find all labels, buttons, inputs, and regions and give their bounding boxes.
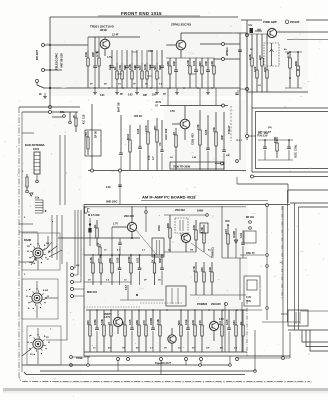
wire rowA right bus (164, 251, 196, 253)
svg-text:100K: 100K (273, 137, 277, 143)
wire S1 feeds (38, 233, 48, 270)
svg-text:BAT 88: BAT 88 (117, 102, 121, 112)
wire rowB lower rail (120, 299, 164, 301)
wire S1 feed diagonals (46, 242, 62, 257)
wire fe link bar5 (190, 73, 196, 75)
wire right link 190 (288, 189, 328, 191)
ground GND top (39, 93, 47, 99)
node plus mark (280, 260, 282, 264)
component S1 box (22, 233, 60, 270)
wire diag feedback (136, 230, 156, 254)
wire M2 h184 (237, 183, 288, 185)
net label 2SC403 B (175, 208, 185, 212)
wire TR block bottom bus (247, 91, 308, 93)
net label TUN (257, 132, 272, 138)
net label MF 201 (246, 216, 255, 219)
net label 9018 (100, 28, 107, 32)
net label COIL413 (191, 133, 195, 145)
wire right box top (290, 202, 328, 204)
node J1 (49, 87, 51, 89)
wire TR block left border (246, 20, 248, 96)
inductor L301 shield (264, 43, 279, 66)
wire diag rowA right (191, 243, 212, 258)
wire fe link bar4 (147, 75, 152, 77)
resistor R104 (153, 118, 158, 170)
capacitor C225 47P (204, 58, 210, 88)
resistor R4213 150 (198, 310, 203, 352)
node cl2 (297, 51, 299, 53)
wire ant3 lead (37, 83, 44, 89)
terminal m2 (249, 227, 252, 230)
wire rowB mid rail (84, 281, 131, 283)
wire front-end board top border (50, 16, 238, 18)
wire right mid rail 311 (300, 310, 328, 312)
wire base drop R (111, 227, 113, 255)
terminal ant bar (36, 180, 39, 183)
capacitor C417 50P (158, 254, 164, 285)
terminal m1 (249, 221, 252, 224)
wire front-end top rail (88, 36, 140, 38)
node tn1 (264, 139, 266, 141)
net label S2 marks (26, 290, 48, 310)
net label pF under bus 2 (143, 95, 148, 97)
terminal rc1 (251, 175, 254, 178)
wire right box bottom (288, 329, 328, 331)
net label tr block extra (250, 49, 288, 87)
wire M2 dash vline (227, 106, 231, 141)
capacitor CT1 (263, 140, 267, 160)
wire rb step2 (306, 330, 328, 347)
wire conn drops (52, 215, 62, 264)
resistor R414 100K (127, 254, 132, 285)
component MF box (244, 231, 256, 243)
net label OSC 70 (246, 252, 255, 255)
wire M2 v237c (236, 177, 238, 184)
terminal m4 (266, 254, 269, 257)
wire ant1 lead (44, 44, 88, 46)
wire term drop 161 (160, 361, 162, 375)
net label FC vertical (82, 114, 86, 124)
wire M2 v288 (287, 184, 289, 203)
terminal P6 (71, 295, 74, 298)
wire M1 drop x120 (119, 172, 121, 205)
terminal FE t247b (246, 88, 249, 91)
net label Tape OUT (155, 362, 171, 365)
wire title underline (98, 15, 200, 17)
resistor R426 33K (135, 310, 140, 352)
component balance cluster (52, 111, 77, 132)
wire left inner frame (21, 112, 23, 372)
capacitor C102 (136, 125, 142, 170)
svg-text:MC2: MC2 (126, 134, 130, 140)
node fe bus dots (94, 87, 213, 89)
svg-text:TUN 3.5V: TUN 3.5V (257, 135, 268, 138)
svg-text:455 KC: 455 KC (134, 115, 143, 118)
transformer T401 (152, 238, 164, 257)
component IFT core (200, 223, 208, 233)
terminal t146 (145, 211, 148, 214)
svg-text:Tape DX-OUT: Tape DX-OUT (155, 362, 171, 365)
net label FRONT END 1015 title (121, 11, 162, 16)
terminal P2 (71, 267, 74, 270)
wire rowB right rail (190, 294, 246, 296)
resistor R4210 560 (177, 310, 182, 352)
net label POWER 2SC945 (197, 302, 228, 306)
svg-text:F.C 110: F.C 110 (82, 114, 86, 124)
net label M 2.5GM (88, 213, 99, 217)
net label TONE CONT (263, 20, 300, 24)
wire right v pair A (283, 190, 288, 322)
terminal m6 (266, 307, 269, 310)
capacitor C240b (235, 91, 240, 95)
resistor R424 1K (121, 310, 126, 352)
capacitor C4211 0.02 (184, 310, 190, 352)
resistor R303 10K (263, 34, 268, 92)
wire S3 feeds (22, 328, 38, 364)
wire drop 255 (254, 330, 256, 371)
switch S3 rotary (27, 334, 49, 355)
capacitor C103 (158, 120, 164, 170)
resistor R203m (212, 112, 217, 170)
transistor TR403 (113, 310, 122, 334)
wire bottom bus 374 (24, 372, 245, 375)
terminal bt3 (229, 364, 232, 367)
capacitor C201 22P (91, 37, 97, 88)
resistor R202m (196, 110, 201, 170)
component left connector bracket (85, 207, 90, 213)
component S3 box (27, 326, 61, 365)
resistor R222 5.6K (186, 58, 191, 88)
wire FE right vline 240 (239, 33, 241, 160)
svg-text:VC: VC (158, 142, 162, 146)
capacitor C403 (118, 238, 122, 255)
wire IF right border dashdot (281, 206, 283, 300)
wire TR401 base (112, 226, 127, 228)
capacitor C104 (106, 185, 122, 189)
terminal PT1 (70, 356, 73, 359)
svg-text:•2179: •2179 (155, 102, 162, 104)
svg-text:AM IF·AMP PC BOARD 4018: AM IF·AMP PC BOARD 4018 (142, 195, 196, 200)
svg-text:750: 750 (84, 132, 88, 137)
component M2 long box (170, 162, 224, 169)
resistor R210 8.2K (143, 50, 148, 88)
svg-text:OSC COIL: OSC COIL (294, 144, 298, 158)
wire left stubs (19, 224, 38, 262)
resistor R301 0.02 (253, 34, 258, 92)
wire x240 drop (239, 258, 241, 300)
wire rowC dashed top (140, 302, 182, 304)
resistor R416 4.7K (192, 262, 197, 295)
wire ant2 lead (44, 69, 62, 71)
resistor R429 2.2K (156, 310, 161, 352)
net label 455KC m1 (134, 115, 143, 118)
resistor R207 2.2K (128, 50, 133, 88)
terminal B3 (160, 358, 163, 361)
net label fe row extra (90, 84, 163, 86)
resistor R306 56K (294, 52, 300, 88)
terminal E2 (49, 111, 52, 114)
net label m2 extra (170, 155, 230, 159)
terminal ANT3 (36, 80, 39, 83)
wire rb drop (282, 322, 284, 356)
net label 1N60 (197, 209, 204, 213)
resistor R423 47 (107, 310, 112, 352)
resistor R410 3.3K (89, 254, 94, 285)
wire TR block mid rail (247, 33, 268, 35)
resistor R103 (144, 120, 149, 170)
net label TR203 lbl (170, 110, 175, 113)
node ant2 node (49, 69, 51, 71)
capacitor C428 100M (149, 310, 155, 352)
node cl4 (297, 69, 299, 71)
wire IF board top border (84, 204, 290, 206)
node cl1 (289, 51, 291, 53)
net label 2ND OSC (106, 200, 118, 204)
node if rowB dots (100, 254, 155, 256)
net label 2SC XX (104, 313, 112, 319)
capacitor C202m (220, 112, 226, 170)
resistor R224 820 (198, 58, 203, 88)
resistor R404 10K (192, 220, 197, 252)
terminal ANT1 (42, 44, 45, 47)
resistor R427 470 (142, 310, 147, 352)
component M1 box (85, 130, 101, 156)
net label S3 marks (29, 336, 49, 356)
wire left col v2 (64, 135, 66, 205)
svg-text:0.02: 0.02 (136, 128, 140, 134)
wire vert x146 (145, 206, 147, 232)
svg-text:FRONT END 1015: FRONT END 1015 (121, 11, 162, 16)
net label if rowB extra (88, 280, 161, 282)
node tn3 (288, 139, 290, 141)
net label osc coil (294, 144, 298, 158)
net label 7600OC (212, 247, 215, 258)
terminal bt4 (254, 370, 257, 373)
terminal E1 (49, 106, 52, 109)
ground GND5 (175, 88, 179, 95)
resistor R205 47K (118, 50, 123, 88)
decorative wash (19, 18, 308, 380)
resistor R226 12K (210, 58, 215, 88)
resistor R101 750 (84, 131, 89, 155)
net label pF under bus (100, 95, 105, 97)
ground GND2 (115, 88, 119, 95)
node TR401 e-node (131, 237, 133, 239)
capacitor C206 33P (123, 50, 129, 88)
wire rowA right rail (164, 214, 206, 216)
resistor R412 22K (108, 254, 113, 285)
capacitor C413 0.05 (115, 254, 121, 285)
wire front-end board left border (49, 17, 51, 88)
terminal M2 t247c (246, 135, 249, 138)
resistor R405 1.5K (200, 225, 205, 252)
resistor R416 1K (150, 254, 155, 285)
node cl3 (289, 77, 291, 79)
resistor R417 330 (200, 262, 205, 295)
wire TR block top left (241, 19, 262, 21)
wire board-interconnect lower (22, 111, 78, 113)
switch S1 rotary (27, 243, 49, 264)
capacitor CE1 electrolytic (88, 218, 91, 246)
terminal FE t247a (246, 34, 249, 37)
wire tun rail top (258, 139, 293, 141)
wire S1 arrow (31, 259, 36, 265)
resistor R4214 8.2 (218, 310, 223, 352)
ground GND1 (93, 88, 97, 95)
wire M2 drops from bus88 (168, 88, 216, 106)
net label under bus 3 (120, 94, 123, 96)
terminal FE out1 (222, 43, 225, 46)
net label 2SC403 A (124, 214, 134, 218)
net label TONE (76, 357, 83, 360)
wire fe link bar3 (132, 51, 137, 53)
wire M1 bus 170 (88, 170, 246, 172)
capacitor C4215 0.05 (225, 310, 231, 352)
wire right rail 310b (240, 309, 262, 311)
net label BAT 88 (117, 102, 121, 112)
wire rowC bottom rail (84, 351, 247, 353)
terminal bt2 (199, 364, 202, 367)
decorative bottom band (3, 388, 328, 394)
wire TR402 base link (180, 233, 183, 237)
net label M1 box lbl (94, 131, 98, 138)
transistor TR401 (127, 206, 136, 238)
wire S3 link (46, 262, 67, 340)
resistor R302 470 (258, 34, 263, 92)
resistor R418 10K (208, 262, 213, 295)
wire fe link bar2 (117, 73, 122, 75)
wire IF title underline (141, 200, 268, 202)
capacitor C301 (255, 29, 262, 31)
resistor R202 4.7K (95, 37, 100, 88)
wire TR203 base (172, 123, 180, 125)
wire FE out1 link (200, 43, 240, 45)
wire IF board top border inner (84, 206, 246, 208)
wire S2 feeds (36, 281, 38, 318)
wire left link h (22, 132, 34, 134)
terminal P4 (71, 281, 74, 284)
wire cluster top rail (285, 51, 302, 53)
wire board-interconnect upper (19, 106, 80, 108)
wire x222 drop (221, 206, 223, 258)
resistor R4217 1K (239, 310, 244, 352)
svg-text:2ND OSC: 2ND OSC (106, 200, 118, 204)
node tn2 (276, 139, 278, 141)
net label 1001 (33, 147, 39, 151)
component det box (166, 286, 186, 306)
wire rb step3 (310, 330, 328, 351)
terminal M2 t223 (222, 104, 225, 107)
net label m1 texts (147, 155, 155, 160)
switch S2 rotary (26, 288, 48, 309)
net label FM ANT (35, 50, 39, 60)
wire rb step1 (302, 330, 328, 342)
wire IF board bottom border (84, 355, 290, 357)
wire link 240-247 (240, 88, 247, 90)
net label 22P (112, 34, 119, 37)
ground GND4 (155, 88, 159, 95)
terminal PT2 (70, 364, 73, 367)
wire IF rowA bus (58, 237, 140, 239)
wire hline 255 (240, 254, 265, 256)
capacitor C421 10M (93, 310, 99, 352)
terminal bt1 (87, 364, 90, 367)
resistor R411 470 (97, 254, 102, 285)
wire left outer frame (19, 107, 310, 382)
net label 0.5V mark (219, 319, 224, 321)
net label if rowC extra (93, 347, 238, 350)
wire bottom dotted (55, 381, 312, 383)
terminal tA (206, 214, 209, 217)
wire TR202 collector rail (181, 32, 247, 34)
resistor R200 10K (84, 37, 89, 88)
wire term drop 88 (87, 356, 89, 365)
capacitor C240 (238, 50, 242, 52)
net label MW 001 (87, 290, 98, 294)
svg-text:4.7: 4.7 (151, 156, 155, 160)
wire audio right box (225, 302, 242, 352)
wire x267 drop (266, 205, 268, 320)
wire fe link bar1 (95, 51, 99, 53)
wire right box left borders (295, 203, 299, 330)
wire rowA right bot rail (222, 257, 247, 259)
net label if rowA extra (104, 249, 211, 252)
terminal M1 t2 (119, 169, 122, 172)
net label M2 right lbls (236, 133, 269, 142)
capacitor CT2 (287, 140, 291, 160)
net label TELESCOPIC (55, 53, 59, 70)
net label ANT label (60, 53, 64, 68)
resistor R406 ERR (224, 225, 229, 258)
component output trans box (288, 310, 308, 326)
net label left col extra (24, 217, 54, 331)
ground GND3 (135, 88, 139, 95)
capacitor C211 0.02 (148, 50, 154, 88)
net label AGC (164, 128, 168, 140)
wire pin links (74, 210, 85, 296)
ground GND6 (206, 88, 210, 95)
diode D401 OA90 (232, 228, 238, 258)
wire FE right vline 247 (246, 96, 248, 140)
resistor R102 MC (126, 125, 131, 170)
wire front-end bottom link (49, 88, 51, 106)
wire TR block drop (251, 92, 253, 108)
terminal FE out2 (222, 58, 225, 61)
node r1 (227, 224, 229, 226)
wire front-end main ground bus (43, 87, 240, 89)
resistor R420 220 (86, 310, 91, 352)
wire rowB dotted (84, 306, 140, 308)
component S2 box (22, 279, 58, 319)
terminal B2 (127, 358, 130, 361)
wire M2 h136 (249, 135, 257, 137)
terminal m3 (266, 204, 269, 207)
transistor TR201 (100, 37, 110, 56)
antenna L1 ferrite bar (34, 152, 40, 180)
wire TR301 collector out (277, 31, 328, 33)
terminal M2 t237 (236, 160, 239, 163)
net label BAR ANTENNA (25, 143, 45, 147)
terminal ANT2 (42, 69, 45, 72)
resistor R300 2.2K (248, 34, 253, 92)
wire rowB top bus (84, 254, 164, 256)
wire IF board left border (83, 205, 85, 357)
resistor R422 5.6K (100, 310, 105, 352)
wire FE out2 link (214, 58, 240, 60)
wire IF right border lower (246, 300, 248, 356)
terminal B4 (185, 358, 188, 361)
svg-text:1P 50: 1P 50 (94, 131, 98, 138)
